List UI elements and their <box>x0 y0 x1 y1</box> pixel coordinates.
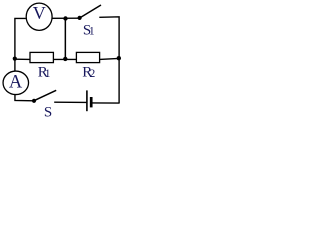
svg-text:V: V <box>33 3 46 23</box>
svg-text:S: S <box>44 104 52 118</box>
svg-text:1: 1 <box>45 68 51 80</box>
svg-text:2: 2 <box>90 68 96 80</box>
svg-text:A: A <box>9 72 23 92</box>
svg-text:1: 1 <box>89 25 95 37</box>
